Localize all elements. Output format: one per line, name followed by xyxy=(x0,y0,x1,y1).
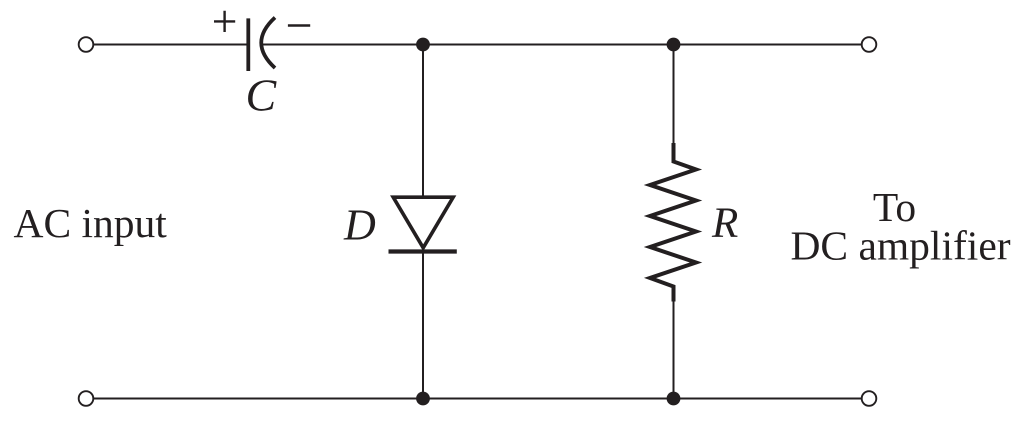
node: resistor top junction xyxy=(667,38,681,52)
wire: diode branch upper xyxy=(422,45,424,197)
node: diode bottom junction xyxy=(416,392,430,406)
diode D symbol xyxy=(389,197,457,251)
svg-text:DC amplifier: DC amplifier xyxy=(790,223,1010,269)
terminal: AC input bottom xyxy=(79,391,94,406)
node: diode top junction xyxy=(416,38,430,52)
capacitor C plus sign xyxy=(214,11,235,32)
terminal: AC input top xyxy=(79,37,94,52)
wire: resistor branch upper xyxy=(673,45,675,145)
capacitor C straight plate xyxy=(246,18,250,71)
svg-text:R: R xyxy=(711,200,738,247)
wire: top-left from input terminal to capacitor xyxy=(94,44,247,46)
svg-text:C: C xyxy=(246,70,278,121)
node: resistor bottom junction xyxy=(667,392,681,406)
wire: bottom from diode node to resistor node xyxy=(423,398,674,400)
wire: top right from resistor node to output terminal xyxy=(674,44,862,46)
capacitor C curved plate xyxy=(261,18,275,69)
svg-text:AC input: AC input xyxy=(14,200,168,246)
wire: diode branch lower xyxy=(422,252,424,399)
wire: bottom right from resistor node to output terminal xyxy=(674,398,862,400)
capacitor C minus sign xyxy=(288,24,310,27)
wire: resistor branch lower xyxy=(673,301,675,399)
terminal: output bottom xyxy=(862,391,877,406)
terminal: output top xyxy=(862,37,877,52)
wire: top middle from capacitor to diode node xyxy=(263,44,423,46)
svg-text:D: D xyxy=(343,200,376,249)
resistor R zigzag xyxy=(650,143,696,302)
wire: bottom from input terminal to diode node xyxy=(94,398,423,400)
wire: top from diode node to resistor node xyxy=(423,44,674,46)
